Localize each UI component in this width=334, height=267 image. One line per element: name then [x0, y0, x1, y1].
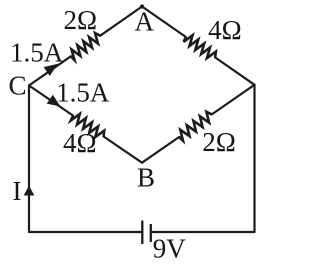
svg-text:C: C — [8, 71, 26, 101]
svg-text:9V: 9V — [153, 233, 187, 263]
svg-text:1.5A: 1.5A — [56, 77, 110, 107]
svg-text:B: B — [137, 162, 155, 192]
svg-text:2Ω: 2Ω — [64, 5, 98, 35]
svg-text:A: A — [134, 7, 154, 37]
svg-text:I: I — [13, 176, 22, 206]
svg-text:4Ω: 4Ω — [63, 128, 97, 158]
svg-text:2Ω: 2Ω — [202, 127, 236, 157]
svg-text:4Ω: 4Ω — [208, 15, 242, 45]
svg-text:1.5A: 1.5A — [10, 37, 64, 67]
